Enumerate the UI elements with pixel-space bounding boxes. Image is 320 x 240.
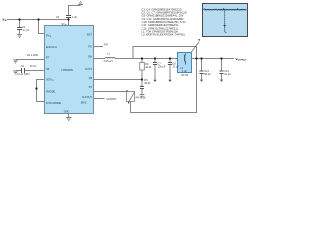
svg-text:LT8629S: LT8629S: [61, 68, 73, 72]
svg-text:R1 1.00M: R1 1.00M: [27, 54, 38, 57]
svg-text:PG: PG: [88, 45, 92, 48]
svg-text:GND: GND: [64, 110, 70, 113]
svg-text:10 nF: 10 nF: [30, 65, 37, 68]
svg-text:BIAS: BIAS: [81, 102, 87, 105]
svg-text:1 µF: 1 µF: [72, 16, 78, 19]
svg-text:RT: RT: [46, 57, 50, 60]
svg-text:SVIN: SVIN: [62, 23, 68, 26]
svg-text:R4 40.2k: R4 40.2k: [136, 96, 147, 99]
svg-text:0.56 µH: 0.56 µH: [104, 60, 113, 63]
svg-text:CLKOUT: CLKOUT: [107, 98, 118, 101]
svg-text:OUTS: OUTS: [85, 68, 92, 71]
svg-text:BST: BST: [87, 34, 92, 37]
svg-text:SYNC/MODE: SYNC/MODE: [46, 102, 61, 105]
svg-text:EN/UVLO: EN/UVLO: [46, 46, 57, 49]
svg-text:4.7 µF: 4.7 µF: [22, 29, 30, 32]
svg-text:10 µF: 10 µF: [224, 73, 231, 76]
svg-text:39.6k: 39.6k: [144, 82, 151, 85]
svg-text:1 µF: 1 µF: [182, 70, 187, 73]
svg-text:40.2k: 40.2k: [145, 66, 152, 69]
svg-text:68 µF: 68 µF: [204, 73, 211, 76]
svg-text:RT: RT: [89, 86, 93, 89]
svg-text:744786: 744786: [181, 75, 189, 77]
svg-text:L2: WÜRTH ELEKTRONIK 7447861: L2: WÜRTH ELEKTRONIK 7447861: [142, 33, 186, 37]
svg-text:10 µF: 10 µF: [173, 66, 180, 69]
svg-text:CLKOUT: CLKOUT: [82, 96, 93, 99]
svg-text:100 µF: 100 µF: [158, 66, 166, 69]
svg-text:SW: SW: [88, 56, 93, 59]
svg-text:FB: FB: [89, 77, 93, 80]
svg-text:PMODE: PMODE: [46, 90, 56, 93]
svg-text:3.3 µF NPO: 3.3 µF NPO: [16, 73, 29, 76]
svg-text:PG: PG: [104, 44, 108, 47]
svg-text:PVIN: PVIN: [46, 35, 52, 38]
svg-text:INTVCC: INTVCC: [46, 79, 55, 82]
svg-text:SS: SS: [46, 68, 50, 71]
